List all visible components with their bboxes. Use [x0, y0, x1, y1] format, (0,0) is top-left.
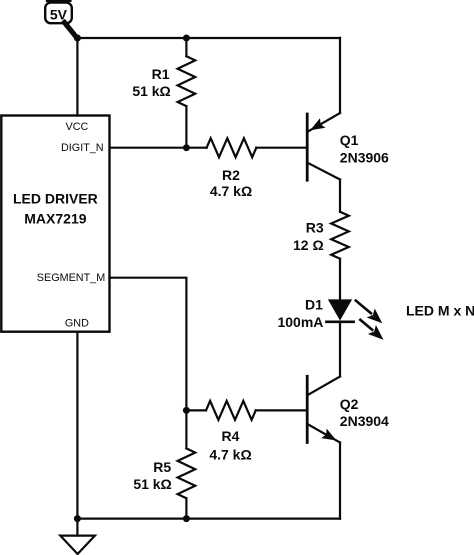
svg-text:Q2: Q2	[340, 396, 359, 412]
svg-text:R1: R1	[152, 66, 170, 82]
ground	[60, 536, 95, 554]
svg-text:VCC: VCC	[66, 121, 89, 133]
wire: top 5V rail	[77, 37, 340, 39]
svg-text:D1: D1	[305, 296, 323, 312]
junction: R1 top	[183, 35, 190, 42]
power flag 5V	[45, 0, 77, 38]
wire: SEGMENT_M pin to R4/R5 node	[110, 278, 187, 411]
svg-text:4.7 kΩ: 4.7 kΩ	[209, 447, 251, 463]
svg-text:R3: R3	[306, 219, 324, 235]
svg-text:2N3906: 2N3906	[340, 149, 389, 165]
svg-text:4.7 kΩ: 4.7 kΩ	[210, 183, 252, 199]
wire: GND pin to ground rail	[76, 332, 78, 519]
wire: R4 to Q2 base	[256, 409, 306, 411]
junction: R1 bottom / DIGIT_N net	[183, 144, 190, 151]
svg-text:LED M x N: LED M x N	[406, 303, 474, 319]
svg-text:Q1: Q1	[340, 132, 359, 148]
wire: ground stub	[76, 519, 78, 536]
svg-text:R5: R5	[153, 459, 171, 475]
wire: ground rail	[77, 517, 340, 519]
IC U1 LED DRIVER MAX7219 body	[1, 116, 109, 332]
LED light emission arrow 1	[356, 301, 383, 324]
svg-text:2N3904: 2N3904	[340, 413, 389, 429]
junction: R5 bottom / ground rail	[183, 515, 190, 522]
svg-text:5V: 5V	[50, 6, 68, 22]
junction: R4/R5 node	[183, 407, 190, 414]
resistor R1	[178, 38, 196, 148]
svg-text:51 kΩ: 51 kΩ	[133, 476, 171, 492]
svg-text:SEGMENT_M: SEGMENT_M	[37, 272, 105, 284]
wire: DIGIT_N pin to R2	[110, 147, 207, 149]
svg-text:MAX7219: MAX7219	[24, 211, 86, 227]
transistor Q2 2N3904	[307, 376, 340, 518]
junction: ground rail left	[74, 515, 81, 522]
wire: D1 cathode to Q2 collector	[339, 322, 341, 377]
svg-text:R2: R2	[222, 167, 240, 183]
svg-text:DIGIT_N: DIGIT_N	[61, 142, 104, 154]
svg-text:R4: R4	[222, 428, 240, 444]
resistor R4	[206, 401, 256, 420]
svg-text:LED DRIVER: LED DRIVER	[13, 190, 98, 206]
svg-text:12 Ω: 12 Ω	[293, 237, 324, 253]
resistor R3	[331, 212, 349, 299]
svg-text:51 kΩ: 51 kΩ	[132, 83, 170, 99]
LED light emission arrow 2	[360, 320, 383, 340]
wire: R2 to Q1 base	[256, 147, 306, 149]
diode D1 LED	[326, 299, 353, 321]
resistor R2	[207, 138, 257, 157]
resistor R5	[178, 410, 196, 518]
node A: 5V rail junction dot	[74, 35, 81, 42]
wire: 5V to VCC pin	[76, 38, 78, 116]
transistor Q1 2N3906	[307, 38, 340, 212]
svg-text:GND: GND	[65, 318, 89, 330]
wire: node to R4 left lead	[186, 409, 206, 411]
svg-text:100mA: 100mA	[277, 314, 323, 330]
